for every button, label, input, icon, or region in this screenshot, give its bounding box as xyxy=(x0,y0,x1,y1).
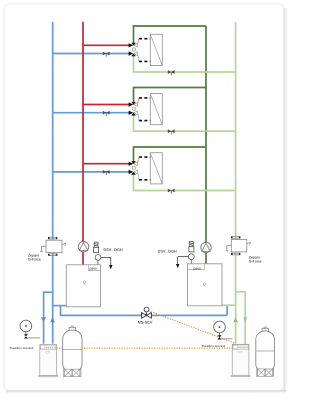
arrow down (right expansion) xyxy=(243,318,247,322)
pipe: blue expansion branch xyxy=(44,292,53,344)
expansion vessel (left) xyxy=(63,326,82,377)
svg-text:MS-SCV: MS-SCV xyxy=(138,320,153,324)
HX2 supply connector curve xyxy=(135,98,138,104)
HX2 port pipes (dashed) xyxy=(139,98,150,121)
signal line MS-SCV to TecBox xyxy=(149,311,235,343)
pump P2 (right) xyxy=(201,242,211,252)
balancing valve blue branch u2 xyxy=(103,111,110,115)
svg-text:Transfero Connect: Transfero Connect xyxy=(202,344,226,348)
blow-off arrow (left) xyxy=(109,265,112,269)
pipe: light green unit2 bottom xyxy=(134,113,236,132)
pipe: light green unit1 bottom xyxy=(134,54,236,73)
motor valve MS-SCV xyxy=(142,307,152,318)
pipe: light green expansion line A xyxy=(235,305,237,346)
pump P1 (left) xyxy=(78,242,88,252)
dirt separator Zeparo G-Force (right) xyxy=(226,236,251,255)
blow-off arrow (right) xyxy=(176,264,179,268)
valve actuator xyxy=(132,107,135,110)
pipe: light green to right boiler xyxy=(222,304,236,306)
svg-text:G-Force: G-Force xyxy=(249,260,262,264)
chiller Q (right) xyxy=(188,264,223,306)
3-way valve V1a (supply) xyxy=(129,43,136,48)
balancing valve blue branch u3 xyxy=(103,170,110,174)
safety valve DSV (right) xyxy=(178,242,195,265)
boiler Q (left) xyxy=(66,265,100,307)
pipe: red branch unit1 xyxy=(83,44,129,46)
pipe: red branch unit3 xyxy=(83,163,129,165)
valve actuator xyxy=(132,48,135,51)
pipe: red branch unit2 xyxy=(83,104,129,106)
balancing valve green bottom u1 xyxy=(168,70,175,74)
svg-text:G-Force: G-Force xyxy=(28,258,41,262)
3-way valve V3b (return) xyxy=(129,170,136,175)
safety valve DSV (left) xyxy=(94,242,111,265)
balancing valve blue branch u1 xyxy=(103,52,110,56)
3-way valve V2b (return) xyxy=(129,111,136,116)
svg-text:psvs: psvs xyxy=(90,267,97,271)
balancing valve green bottom u2 xyxy=(168,129,175,133)
pipe: dark green unit1 top xyxy=(134,26,207,45)
HX3 port pipes (dashed) xyxy=(139,157,150,180)
pipe: dark green unit2 top xyxy=(134,88,207,105)
pipe: blue branch unit2 xyxy=(53,112,129,114)
TecBox (left) xyxy=(39,345,58,377)
arrow down (left expansion) xyxy=(41,317,46,322)
svg-text:Q: Q xyxy=(83,280,86,285)
pipe: blue riser into right boiler return xyxy=(226,305,228,315)
pipe: blue return riser xyxy=(44,22,228,344)
svg-text:DSV...DGH: DSV...DGH xyxy=(158,250,177,254)
pipe: red supply riser xyxy=(83,22,129,265)
dirt separator Zeparo G-Force (left) xyxy=(40,237,65,256)
valve actuator xyxy=(132,166,135,169)
pipe: blue branch unit1 xyxy=(53,53,129,55)
HX2 return connector curve xyxy=(135,113,138,120)
HX1 port pipes (dashed) xyxy=(139,39,150,62)
signal bus (horizontal) xyxy=(44,347,247,349)
pipe: dark green unit3 top xyxy=(134,147,207,164)
pipe: light green unit3 bottom xyxy=(134,172,236,191)
pipe: blue system-connect line xyxy=(61,306,228,316)
HX1 return connector curve xyxy=(135,54,138,61)
balancing valve green bottom u3 xyxy=(168,189,175,193)
svg-text:psvs: psvs xyxy=(194,266,201,270)
heat exchanger HX3 xyxy=(150,153,162,184)
heat exchanger HX1 xyxy=(150,34,162,65)
pipe: blue branch unit3 xyxy=(53,171,129,173)
arrow up (left pump line) xyxy=(50,317,55,322)
arrow up (right pump line) xyxy=(233,317,238,322)
HX1 supply connector curve xyxy=(135,39,138,45)
svg-text:DSV...DGH: DSV...DGH xyxy=(104,248,123,252)
svg-text:Q: Q xyxy=(203,282,206,287)
TecBox (right) xyxy=(231,344,250,376)
pressure gauge (left) xyxy=(20,320,40,338)
pipe: blue to boiler bottom xyxy=(53,305,67,307)
pipe: light green expansion line B xyxy=(236,292,246,346)
svg-text:Transfero Connect: Transfero Connect xyxy=(10,346,34,350)
pipe: dark green supply riser xyxy=(134,26,207,264)
heat exchanger HX2 xyxy=(150,94,162,125)
pipe: light green return riser xyxy=(134,22,246,346)
HX3 return connector curve xyxy=(135,173,138,180)
3-way valve V3a (supply) xyxy=(129,161,136,166)
pressure gauge (right) xyxy=(214,321,233,339)
3-way valve V1b (return) xyxy=(129,51,136,56)
expansion vessel (right) xyxy=(256,327,275,377)
HX3 supply connector curve xyxy=(135,157,138,163)
page sheet xyxy=(284,8,290,390)
3-way valve V2a (supply) xyxy=(129,102,136,107)
